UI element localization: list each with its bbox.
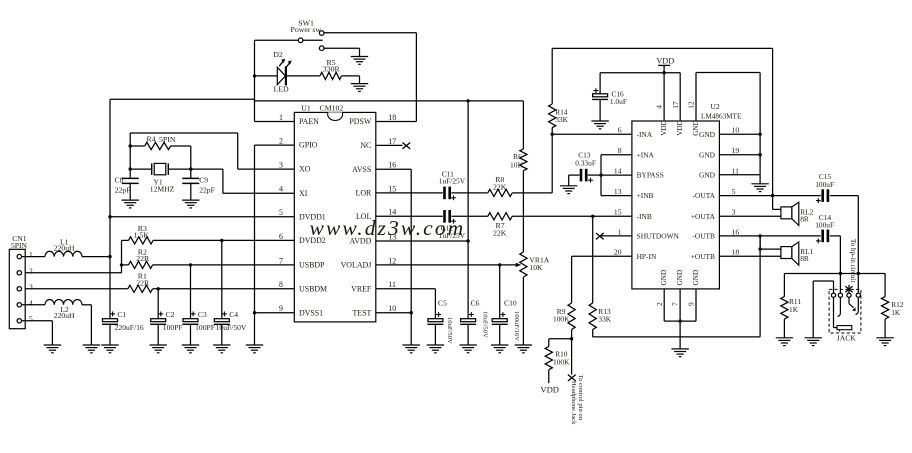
- svg-text:GPIO: GPIO: [299, 141, 318, 150]
- svg-text:12MHZ: 12MHZ: [150, 184, 175, 193]
- wire jack tip contact (C14): [839, 274, 841, 294]
- svg-text:1uF/25V: 1uF/25V: [439, 176, 466, 185]
- svg-text:9: 9: [279, 304, 283, 313]
- svg-text:JACK: JACK: [837, 334, 857, 343]
- potentiometer VR1A 10K: [520, 252, 550, 345]
- svg-text:LOR: LOR: [356, 189, 373, 198]
- jack internals: [834, 297, 859, 331]
- svg-text:GND: GND: [699, 130, 716, 139]
- wire -OUTA feedback loop: [552, 48, 772, 195]
- wire -OUTB to feedback R13: [759, 236, 761, 337]
- svg-text:16: 16: [732, 227, 740, 236]
- resistor R7 22K: [488, 213, 512, 238]
- wire headphone output bus: [784, 272, 885, 275]
- resistor R12 1K: [882, 274, 904, 338]
- inductor L1 220uH: [22, 237, 111, 256]
- capacitor C2 100PF: [150, 289, 182, 345]
- svg-text:4: 4: [655, 105, 664, 109]
- svg-text:PDSW: PDSW: [349, 117, 371, 126]
- ground (C13): [560, 186, 577, 194]
- svg-text:-INB: -INB: [637, 212, 652, 221]
- svg-text:100PF: 100PF: [163, 323, 183, 332]
- svg-text:2: 2: [29, 266, 33, 275]
- svg-text:10uF/50V: 10uF/50V: [216, 323, 247, 332]
- capacitor C9 22pF: [182, 169, 215, 200]
- wire DVDD2 pin 6: [153, 239, 294, 242]
- resistor R9 100K: [553, 303, 575, 340]
- svg-text:1K: 1K: [789, 305, 799, 314]
- capacitor C15 100uF: [815, 172, 858, 273]
- svg-text:6: 6: [618, 126, 622, 135]
- svg-text:C6: C6: [471, 298, 480, 307]
- wire GND pin 12 top loop: [696, 73, 760, 135]
- capacitor C4 10uF/50V: [214, 240, 247, 345]
- wire U2 bottom GND pins 2/7/9: [664, 289, 696, 349]
- svg-text:XO: XO: [299, 165, 311, 174]
- wire CN1 pin5 to ground: [22, 321, 53, 345]
- wire XO loop top: [129, 133, 295, 177]
- ground (AVSS/TEST): [403, 345, 420, 353]
- ground (C5): [427, 345, 444, 353]
- svg-text:XI: XI: [299, 189, 308, 198]
- ground (C2): [150, 345, 167, 353]
- speaker RL2 8R: [719, 196, 813, 226]
- svg-text:R4: R4: [147, 134, 156, 143]
- svg-text:USBDP: USBDP: [299, 261, 325, 270]
- svg-text:22K: 22K: [493, 229, 507, 238]
- capacitor C11 1uF/25V: [376, 169, 488, 200]
- svg-text:-OUTA: -OUTA: [693, 191, 716, 200]
- capacitor C3 100PF: [183, 265, 215, 345]
- svg-text:10uF/50V: 10uF/50V: [446, 317, 453, 344]
- svg-text:1: 1: [29, 250, 33, 259]
- svg-text:7: 7: [671, 302, 680, 306]
- svg-text:8: 8: [618, 146, 622, 155]
- svg-text:100uF: 100uF: [815, 221, 834, 230]
- svg-text:4: 4: [279, 185, 283, 194]
- svg-text:C10: C10: [504, 298, 517, 307]
- svg-text:22K: 22K: [493, 183, 507, 192]
- resistor R5 330R: [287, 58, 360, 84]
- svg-text:3: 3: [732, 208, 736, 217]
- svg-text:16: 16: [388, 161, 396, 170]
- svg-text:10: 10: [732, 126, 740, 135]
- svg-text:GND: GND: [699, 150, 716, 159]
- wire AVDD pin 13: [376, 239, 470, 242]
- svg-text:C1: C1: [117, 310, 126, 319]
- ground (CN1 pin5): [44, 345, 61, 353]
- svg-text:AVSS: AVSS: [352, 165, 371, 174]
- svg-text:C2: C2: [166, 310, 175, 319]
- svg-text:1K: 1K: [891, 308, 901, 317]
- svg-text:USBDM: USBDM: [299, 284, 327, 293]
- wire switch lower contact to ground: [324, 48, 360, 56]
- resistor R11 1K: [781, 274, 802, 338]
- svg-text:11: 11: [388, 280, 396, 289]
- switch SW1 Power sw: [291, 19, 325, 51]
- ground (C1): [101, 345, 118, 353]
- svg-text:100K: 100K: [553, 315, 570, 324]
- ground (C3): [182, 345, 199, 353]
- capacitor C12 1uF/25V: [376, 210, 488, 240]
- svg-text:3: 3: [29, 282, 33, 291]
- svg-text:8: 8: [279, 280, 283, 289]
- resistor R8 22K: [488, 175, 512, 197]
- crystal Y1 12MHZ: [130, 163, 192, 193]
- svg-text:VDD: VDD: [540, 385, 559, 395]
- svg-text:14: 14: [614, 167, 622, 176]
- svg-text:0.33uF: 0.33uF: [575, 158, 596, 167]
- ground (C10): [491, 345, 508, 353]
- wire control pin stub: [568, 339, 576, 381]
- svg-text:2: 2: [279, 137, 283, 146]
- svg-text:-INA: -INA: [637, 130, 653, 139]
- svg-text:LED: LED: [274, 85, 290, 94]
- svg-text:CM102: CM102: [320, 103, 344, 112]
- jack contacts: [831, 293, 860, 297]
- resistor R2 22R: [122, 247, 153, 268]
- svg-text:VOLADJ: VOLADJ: [341, 261, 372, 270]
- svg-text:NC: NC: [360, 141, 371, 150]
- connector CN1 5PIN: [9, 234, 33, 329]
- wire +INA/BYPASS/+INB bracket: [599, 155, 632, 196]
- svg-text:VDD: VDD: [676, 120, 684, 136]
- wire DVSS1 pin 9: [255, 312, 295, 314]
- svg-text:15: 15: [614, 208, 622, 217]
- resistor R4 5PIN: [129, 134, 191, 169]
- svg-text:100PF: 100PF: [195, 323, 215, 332]
- svg-text:1: 1: [279, 113, 283, 122]
- svg-text:22pF: 22pF: [199, 185, 215, 194]
- svg-text:12: 12: [388, 256, 396, 265]
- wire USBDP pin 7: [153, 263, 295, 266]
- wire HP-IN pin 20: [572, 256, 632, 303]
- wire AVDD rail vertical: [467, 101, 469, 319]
- capacitor C16 1.0uF: [592, 73, 627, 121]
- svg-text:+OUTA: +OUTA: [691, 212, 716, 221]
- capacitor C6 10uF/50V: [460, 298, 488, 345]
- svg-text:12: 12: [687, 101, 696, 109]
- svg-text:VDD: VDD: [656, 56, 674, 65]
- LED D2: [253, 50, 292, 94]
- svg-text:100uF: 100uF: [815, 180, 834, 189]
- resistor R3 1.5K: [122, 224, 154, 244]
- svg-text:To hp-in circuit: To hp-in circuit: [849, 239, 857, 282]
- svg-text:5: 5: [29, 314, 33, 323]
- svg-text:5PIN: 5PIN: [159, 135, 176, 144]
- wire TEST pin 10: [376, 311, 413, 345]
- ground (L2): [83, 345, 100, 353]
- svg-text:DVSS1: DVSS1: [299, 308, 323, 317]
- svg-text:22pF: 22pF: [115, 185, 131, 194]
- wire jack detect stub: [845, 285, 852, 293]
- svg-text:Headphone Jack: Headphone Jack: [570, 381, 577, 425]
- svg-text:220uF/16: 220uF/16: [115, 323, 144, 332]
- svg-text:1.0uF: 1.0uF: [610, 97, 627, 106]
- svg-text:13: 13: [614, 187, 622, 196]
- ground (jack sleeve): [805, 338, 822, 346]
- capacitor C14 100uF: [815, 213, 840, 273]
- svg-text:11: 11: [732, 167, 740, 176]
- svg-text:220uH: 220uH: [54, 311, 75, 320]
- wire top rail left segment: [110, 98, 255, 100]
- resistor R10 100K: [545, 339, 571, 383]
- wire LOR to -INA riser: [512, 134, 552, 193]
- svg-text:5: 5: [279, 208, 283, 217]
- ground (R11): [776, 338, 793, 346]
- capacitor C1 220uF/16: [102, 310, 144, 345]
- wire VOLADJ pin 12 to VR1A wiper: [376, 263, 522, 267]
- svg-text:20: 20: [614, 248, 622, 257]
- svg-text:100uF/16V: 100uF/16V: [513, 311, 520, 341]
- svg-text:VREF: VREF: [351, 284, 372, 293]
- resistor R13 33K: [589, 216, 760, 337]
- svg-text:TEST: TEST: [352, 308, 371, 317]
- ground (R12): [876, 338, 893, 346]
- svg-text:3: 3: [279, 161, 283, 170]
- wire XI pin 4: [191, 169, 294, 193]
- ground (switch contact): [351, 57, 368, 65]
- svg-text:6: 6: [279, 232, 283, 241]
- resistor R6 10K: [510, 101, 527, 252]
- svg-text:LM4863MTE: LM4863MTE: [701, 112, 742, 120]
- resistor R1 22R: [128, 272, 153, 293]
- svg-text:GND: GND: [660, 270, 668, 286]
- svg-text:10K: 10K: [529, 263, 543, 272]
- wire USBDM pin 8: [21, 287, 294, 290]
- svg-text:1: 1: [618, 227, 622, 236]
- svg-text:SHUTDOWN: SHUTDOWN: [637, 232, 680, 241]
- svg-text:7: 7: [279, 256, 283, 265]
- node VDD (top): [656, 56, 674, 74]
- svg-text:BYPASS: BYPASS: [637, 171, 664, 180]
- node To control pin on Headphone Jack: [570, 375, 584, 426]
- wire -OUTA pin 5: [719, 194, 820, 197]
- wire VREF pin 11: [376, 289, 436, 319]
- svg-text:HP-IN: HP-IN: [637, 252, 657, 261]
- svg-text:U1: U1: [301, 103, 311, 112]
- wire switch common to PAEN rail: [255, 40, 299, 121]
- svg-text:10uF/50V: 10uF/50V: [481, 311, 488, 338]
- svg-text:+INB: +INB: [637, 191, 654, 200]
- wire switch top contact to PDSW: [324, 33, 416, 122]
- wire jack sleeve to ground: [813, 281, 833, 338]
- svg-text:PAEN: PAEN: [299, 117, 319, 126]
- ground (C8): [122, 200, 139, 208]
- svg-text:C5: C5: [438, 298, 447, 307]
- ground (DVSS1): [246, 345, 263, 353]
- svg-text:+INA: +INA: [637, 150, 655, 159]
- svg-text:5PIN: 5PIN: [11, 241, 28, 250]
- svg-text:C9: C9: [199, 175, 208, 184]
- wire VDD rail: [600, 73, 680, 121]
- connector JACK: [829, 289, 861, 342]
- svg-text:1.5K: 1.5K: [134, 231, 150, 240]
- ground (C4): [213, 345, 230, 353]
- svg-text:9: 9: [687, 302, 696, 306]
- svg-text:4: 4: [29, 298, 33, 307]
- svg-text:17: 17: [388, 137, 396, 146]
- svg-text:C3: C3: [198, 310, 207, 319]
- wire SHUTDOWN pin 1 no-connect: [596, 233, 632, 239]
- svg-text:D2: D2: [273, 50, 283, 59]
- svg-text:VDD: VDD: [660, 120, 668, 136]
- ground (U2 GND pins): [751, 184, 768, 192]
- ground (C6): [459, 345, 476, 353]
- amplifier U2 LM4863MTE: [614, 101, 742, 306]
- resistor R14 33K: [549, 48, 569, 134]
- svg-text:-OUTB: -OUTB: [692, 232, 715, 241]
- svg-text:GND: GND: [699, 171, 716, 180]
- wire jack ring contact (C15): [857, 274, 859, 294]
- wire GND pins 10/19/11: [719, 133, 761, 184]
- svg-text:C4: C4: [229, 310, 238, 319]
- ground (U2 bottom): [671, 349, 688, 357]
- svg-text:15: 15: [388, 184, 396, 193]
- svg-text:GND: GND: [692, 270, 700, 286]
- svg-text:+OUTB: +OUTB: [691, 252, 715, 261]
- wire -INA pin 6: [551, 133, 632, 136]
- wire PAEN pin 1: [255, 121, 295, 123]
- wire DVDD1 pin 5: [110, 216, 294, 218]
- svg-text:2: 2: [655, 302, 664, 306]
- op-amp U1 CM102: [279, 103, 396, 322]
- svg-text:19: 19: [732, 146, 740, 155]
- ground (VR1A): [515, 345, 532, 353]
- wire LOL to -INB: [512, 215, 632, 218]
- svg-text:www.dz3w.com: www.dz3w.com: [310, 216, 466, 240]
- ground (C16): [591, 121, 608, 129]
- svg-text:10: 10: [388, 304, 396, 313]
- svg-text:5: 5: [732, 187, 736, 196]
- svg-text:330R: 330R: [323, 65, 341, 74]
- capacitor C10 100uF/16V: [492, 265, 521, 345]
- svg-text:33K: 33K: [598, 315, 611, 324]
- svg-text:17: 17: [671, 101, 680, 109]
- capacitor C13 0.33uF: [569, 151, 601, 186]
- svg-text:18: 18: [732, 248, 740, 257]
- wire GPIO pin 2 to DVSS1 net: [253, 145, 294, 345]
- capacitor C5 10uF/50V: [427, 298, 452, 345]
- svg-text:U2: U2: [710, 102, 719, 111]
- svg-text:GND: GND: [676, 270, 684, 286]
- wire top rail right segment: [255, 99, 524, 102]
- inductor L2 220uH: [22, 299, 92, 345]
- svg-text:8R: 8R: [800, 254, 809, 263]
- svg-text:GND: GND: [692, 120, 700, 136]
- wire left power rail: [108, 99, 111, 319]
- svg-text:8R: 8R: [800, 214, 809, 223]
- svg-text:100K: 100K: [553, 357, 570, 366]
- ground (after R5): [351, 84, 368, 92]
- wire NC pin 17 no-connect: [376, 143, 410, 149]
- svg-text:33K: 33K: [555, 115, 568, 124]
- wire CN1 pin2 riser: [21, 240, 123, 272]
- svg-text:18: 18: [388, 113, 396, 122]
- capacitor C8 22pF: [115, 175, 139, 200]
- wire -OUTB pin 16: [719, 234, 820, 237]
- wire AVSS pin 16: [376, 169, 411, 312]
- speaker RL1 8R: [719, 236, 813, 265]
- ground (C9): [182, 200, 199, 208]
- svg-text:Power sw: Power sw: [291, 25, 322, 34]
